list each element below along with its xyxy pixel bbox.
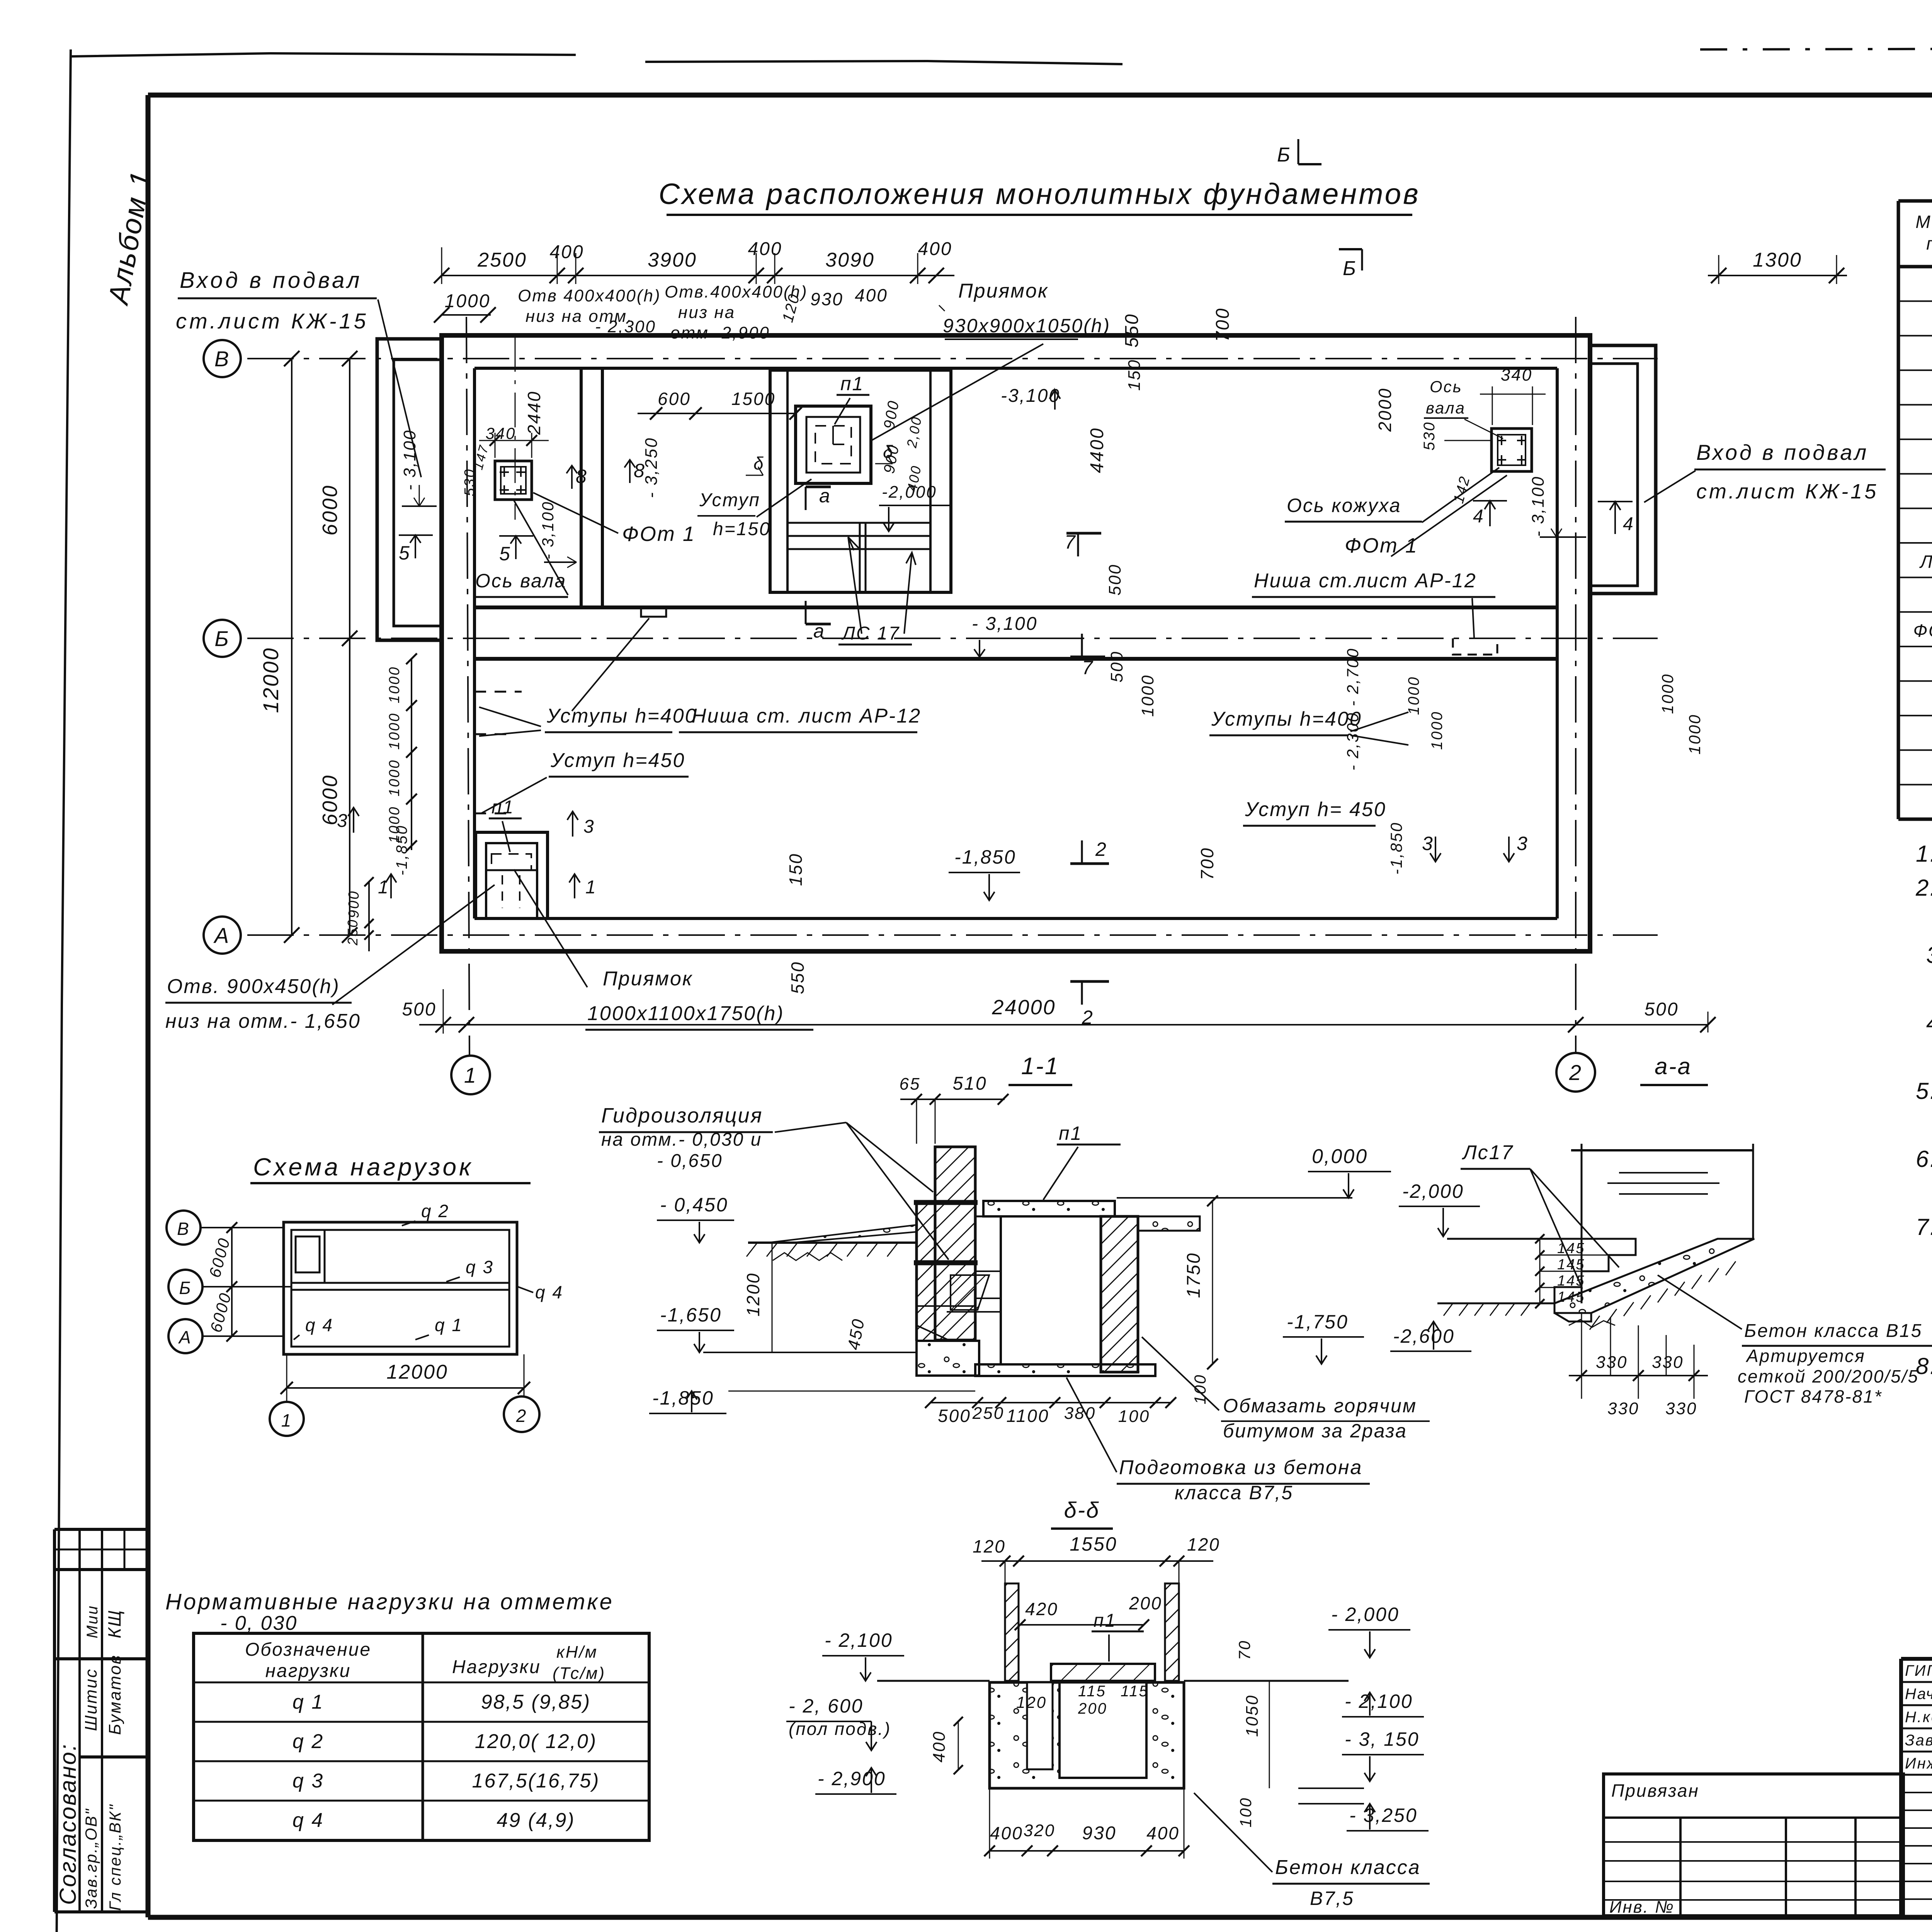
plan building outer walls	[442, 335, 1590, 951]
1-1 sloped apron	[768, 1225, 917, 1243]
svg-text:δ: δ	[753, 453, 765, 473]
svg-text:Н.контр.: Н.контр.	[1905, 1709, 1932, 1726]
axis line Б	[247, 638, 1658, 639]
svg-text:65: 65	[900, 1075, 921, 1094]
svg-text:340: 340	[1501, 366, 1532, 384]
svg-text:5: 5	[499, 543, 511, 565]
svg-text:4: 4	[1623, 514, 1634, 534]
svg-text:250: 250	[345, 918, 361, 946]
svg-text:- 2,300: - 2,300	[595, 317, 656, 336]
svg-text:1000: 1000	[386, 759, 403, 797]
sheet outer border top	[71, 53, 1122, 64]
svg-text:400: 400	[990, 1823, 1023, 1843]
section mark Б top	[1298, 139, 1299, 164]
svg-text:400: 400	[930, 1731, 949, 1762]
axis line 2	[1575, 317, 1577, 1053]
svg-text:В: В	[214, 347, 230, 371]
svg-text:70: 70	[1235, 1640, 1253, 1660]
svg-text:250: 250	[972, 1404, 1004, 1423]
b-b pit void	[1060, 1682, 1146, 1778]
svg-text:сеткой 200/200/5/5: сеткой 200/200/5/5	[1738, 1366, 1919, 1386]
svg-text:550: 550	[787, 961, 808, 994]
svg-text:550: 550	[1122, 313, 1142, 347]
svg-text:Уступ: Уступ	[699, 490, 760, 510]
svg-text:Зав.гр.„ОВ": Зав.гр.„ОВ"	[82, 1808, 100, 1909]
svg-text:Обозначение: Обозначение	[245, 1639, 371, 1660]
svg-text:Нагрузки: Нагрузки	[452, 1657, 541, 1677]
svg-text:2500: 2500	[477, 249, 527, 271]
left small dim chain 1000s	[411, 659, 412, 850]
1-1 bottom slab	[975, 1364, 1155, 1376]
svg-text:Гл спец.„ВК": Гл спец.„ВК"	[106, 1804, 124, 1911]
svg-text:400: 400	[1146, 1823, 1180, 1843]
svg-text:7: 7	[1082, 657, 1094, 679]
svg-text:п1: п1	[1094, 1611, 1116, 1631]
svg-text:(Тс/м): (Тс/м)	[553, 1664, 605, 1683]
b-b concrete pit	[990, 1682, 1184, 1788]
svg-text:115: 115	[1078, 1683, 1106, 1700]
svg-text:200: 200	[1129, 1593, 1162, 1613]
left vertical dimension line 6000/6000	[349, 359, 350, 935]
svg-text:- 2,900: - 2,900	[818, 1768, 886, 1789]
niche small bottom of upper half	[641, 607, 666, 617]
svg-text:100: 100	[1236, 1797, 1255, 1827]
svg-text:100: 100	[1118, 1407, 1150, 1426]
svg-text:Схема расположения монолитных: Схема расположения монолитных фундаменто…	[658, 178, 1420, 211]
svg-text:Нормативные нагрузки на отме: Нормативные нагрузки на отметке	[165, 1589, 614, 1614]
svg-text:1500: 1500	[731, 389, 776, 409]
svg-text:24000: 24000	[992, 996, 1056, 1019]
svg-text:а-а: а-а	[1655, 1053, 1692, 1079]
svg-text:поз.: поз.	[1926, 233, 1932, 253]
svg-text:- 3,100: - 3,100	[539, 501, 557, 560]
pit stairs	[787, 522, 930, 524]
svg-text:530: 530	[462, 468, 478, 496]
svg-text:п1: п1	[840, 373, 864, 395]
svg-text:нагрузки: нагрузки	[265, 1661, 351, 1681]
niche dashed right	[1453, 638, 1497, 655]
svg-text:150: 150	[786, 853, 806, 886]
plan building inner wall faces	[474, 367, 1557, 370]
load scheme 6000 dims	[231, 1228, 233, 1336]
svg-text:167,5(16,75): 167,5(16,75)	[472, 1770, 600, 1792]
svg-text:5.: 5.	[1916, 1078, 1932, 1104]
svg-text:q 1: q 1	[293, 1691, 324, 1713]
axis through FOt1 left	[515, 337, 516, 520]
svg-text:510: 510	[952, 1073, 987, 1094]
svg-text:ст.лист КЖ-15: ст.лист КЖ-15	[1696, 480, 1878, 503]
load scheme axis 1 circle	[270, 1402, 304, 1436]
svg-text:Вход в подвал: Вход в подвал	[180, 268, 362, 293]
svg-text:q 3: q 3	[293, 1770, 324, 1792]
svg-text:q 1: q 1	[435, 1315, 463, 1335]
svg-text:Приямок: Приямок	[603, 968, 693, 990]
svg-text:Б: Б	[214, 626, 230, 651]
svg-text:В7,5: В7,5	[1310, 1888, 1354, 1909]
svg-text:500: 500	[1644, 999, 1679, 1020]
left vertical dimension line 12000	[291, 359, 293, 935]
svg-text:Обмазать горячим: Обмазать горячим	[1223, 1395, 1417, 1417]
a-a 330 dims	[1581, 1313, 1582, 1399]
svg-text:q 2: q 2	[293, 1730, 324, 1753]
svg-text:3: 3	[337, 811, 349, 831]
svg-text:Ниша ст.лист АР-12: Ниша ст.лист АР-12	[1254, 570, 1477, 592]
sheet outer border left	[56, 49, 71, 1932]
plan left entrance porch	[377, 339, 442, 640]
top dimension chain	[442, 275, 954, 276]
pit p1 slab	[796, 406, 871, 483]
b-b walls hatched	[1005, 1583, 1019, 1681]
svg-text:- 2,300 - 2,700: - 2,300 - 2,700	[1344, 648, 1362, 770]
svg-text:500: 500	[1105, 564, 1124, 595]
1-1 pit walls	[1101, 1216, 1138, 1372]
svg-text:12000: 12000	[259, 647, 283, 713]
svg-text:1: 1	[281, 1410, 293, 1430]
svg-text:Уступы h=400: Уступы h=400	[1211, 708, 1362, 730]
svg-text:Подготовка из бетона: Подготовка из бетона	[1119, 1456, 1362, 1479]
svg-text:Зав гр.: Зав гр.	[1905, 1732, 1932, 1749]
svg-text:Ось вала: Ось вала	[475, 570, 566, 592]
svg-text:4400: 4400	[1087, 427, 1107, 473]
fundament FOt1 left	[495, 461, 532, 500]
svg-text:1000: 1000	[445, 291, 491, 311]
svg-text:8: 8	[576, 466, 588, 487]
axis circle А	[204, 917, 241, 954]
axis circle В	[204, 340, 241, 377]
svg-text:330: 330	[1652, 1353, 1684, 1372]
1-1 right ledge	[1138, 1216, 1200, 1231]
svg-text:930х900х1050(h): 930х900х1050(h)	[943, 315, 1111, 337]
svg-text:-2,000: -2,000	[882, 483, 937, 502]
svg-text:ФОт 1: ФОт 1	[622, 522, 696, 546]
svg-text:2440: 2440	[524, 391, 544, 435]
svg-text:400: 400	[918, 239, 952, 259]
svg-text:Мии: Мии	[84, 1605, 101, 1638]
svg-text:h=150: h=150	[713, 519, 771, 539]
svg-text:δ-δ: δ-δ	[1064, 1498, 1100, 1523]
svg-text:q 4: q 4	[293, 1809, 324, 1832]
svg-text:4.: 4.	[1926, 1010, 1932, 1036]
svg-text:Бетон класса В15: Бетон класса В15	[1744, 1321, 1922, 1341]
svg-text:320: 320	[1024, 1821, 1055, 1840]
svg-text:-1,650: -1,650	[660, 1304, 722, 1326]
svg-text:ГОСТ 8478-81*: ГОСТ 8478-81*	[1744, 1386, 1883, 1406]
svg-text:49 (4,9): 49 (4,9)	[497, 1809, 575, 1832]
svg-text:120: 120	[973, 1536, 1006, 1556]
svg-text:2.: 2.	[1915, 875, 1932, 901]
svg-text:3.: 3.	[1926, 942, 1932, 968]
axis circle Б	[204, 620, 241, 657]
svg-text:Уступ h= 450: Уступ h= 450	[1245, 798, 1386, 821]
svg-text:п1: п1	[1059, 1122, 1082, 1144]
svg-text:- 3,100: - 3,100	[1529, 476, 1548, 537]
svg-text:Вход в подвал: Вход в подвал	[1696, 440, 1869, 464]
a-a ground hatch	[1590, 1316, 1600, 1330]
svg-text:330: 330	[1665, 1399, 1697, 1418]
plan partition left room	[580, 368, 583, 607]
bottom dim 24000	[419, 1024, 1708, 1026]
svg-text:1550: 1550	[1070, 1533, 1117, 1555]
svg-text:Инж.: Инж.	[1905, 1755, 1932, 1772]
svg-text:низ на: низ на	[678, 303, 735, 322]
svg-text:- 2,100: - 2,100	[825, 1629, 893, 1651]
svg-text:- 0, 030: - 0, 030	[220, 1612, 298, 1634]
svg-text:Ниша ст. лист АР-12: Ниша ст. лист АР-12	[692, 705, 921, 727]
svg-text:1-1: 1-1	[1021, 1053, 1060, 1080]
svg-text:отм -2,900: отм -2,900	[670, 323, 770, 342]
svg-text:вала: вала	[1426, 399, 1466, 417]
svg-text:4: 4	[1473, 506, 1485, 527]
privyazan block	[1604, 1774, 1903, 1916]
axis circle 1	[451, 1056, 490, 1094]
axis line В	[247, 358, 1658, 359]
spec table grid	[1898, 201, 1932, 819]
svg-text:1000: 1000	[1405, 676, 1422, 715]
svg-text:-1,850: -1,850	[1387, 821, 1405, 874]
leader to priyatok	[871, 344, 1043, 440]
svg-text:А: А	[178, 1327, 192, 1347]
load scheme axes circles	[167, 1211, 201, 1245]
svg-text:150: 150	[1125, 359, 1144, 391]
svg-text:3: 3	[583, 816, 595, 837]
svg-text:145: 145	[1557, 1257, 1585, 1273]
axis circle 2	[1556, 1053, 1595, 1092]
svg-text:Бетон класса: Бетон класса	[1275, 1856, 1421, 1879]
svg-text:1000: 1000	[1685, 714, 1704, 754]
svg-text:420: 420	[1025, 1599, 1058, 1619]
svg-text:Схема нагрузок: Схема нагрузок	[253, 1153, 473, 1181]
svg-text:530: 530	[1421, 421, 1438, 451]
svg-text:q 3: q 3	[466, 1257, 494, 1277]
svg-text:- 3,100: - 3,100	[972, 614, 1037, 634]
svg-text:6.: 6.	[1916, 1146, 1932, 1172]
right 1300 dim	[1708, 275, 1847, 276]
a-a upper structure	[1581, 1144, 1583, 1303]
svg-text:Отв. 900х450(h): Отв. 900х450(h)	[167, 975, 340, 998]
svg-text:3900: 3900	[648, 249, 697, 271]
axis line А	[247, 934, 1658, 936]
left stamp table	[54, 1528, 148, 1531]
1-1 footing left	[917, 1341, 979, 1376]
1-1 bottom dims	[930, 1402, 1171, 1403]
b-b ground line	[877, 1680, 990, 1682]
svg-text:340: 340	[485, 424, 516, 442]
svg-text:1100: 1100	[1007, 1406, 1049, 1426]
svg-text:- 0,450: - 0,450	[660, 1194, 728, 1216]
svg-text:6000: 6000	[318, 485, 342, 536]
svg-text:120: 120	[1187, 1534, 1220, 1554]
svg-text:700: 700	[1197, 847, 1217, 880]
svg-text:500: 500	[938, 1406, 971, 1426]
svg-text:Буматов: Буматов	[105, 1654, 124, 1735]
svg-text:1000: 1000	[1658, 673, 1677, 714]
svg-text:п1: п1	[492, 797, 514, 818]
svg-text:1300: 1300	[1753, 249, 1802, 271]
svg-text:Лс17: Лс17	[1462, 1141, 1514, 1164]
svg-text:-1,750: -1,750	[1287, 1311, 1349, 1333]
svg-text:0,000: 0,000	[1312, 1145, 1368, 1168]
svg-text:1200: 1200	[743, 1272, 763, 1316]
svg-text:КЩ: КЩ	[104, 1609, 124, 1638]
svg-text:600: 600	[658, 389, 691, 409]
svg-text:Согласовано:: Согласовано:	[55, 1743, 81, 1905]
svg-text:5: 5	[399, 542, 411, 564]
svg-text:Инв. №: Инв. №	[1609, 1898, 1675, 1917]
svg-text:Уступы h=400: Уступы h=400	[546, 705, 697, 727]
pit dims 600 1500	[638, 413, 796, 414]
svg-text:на отм.- 0,030 и: на отм.- 0,030 и	[601, 1129, 762, 1150]
svg-text:Приямок: Приямок	[958, 280, 1048, 302]
svg-text:А: А	[213, 923, 230, 947]
svg-text:кН/м: кН/м	[556, 1643, 598, 1662]
priyatok bottom-left	[476, 832, 548, 918]
svg-text:- 2,000: - 2,000	[1331, 1604, 1400, 1625]
svg-text:930: 930	[810, 289, 844, 309]
svg-text:ЛС 17: ЛС 17	[841, 623, 900, 644]
svg-text:битумом за 2раза: битумом за 2раза	[1223, 1420, 1407, 1442]
svg-text:ФОт 1: ФОт 1	[1913, 621, 1932, 641]
svg-text:1000х1100х1750(h): 1000х1100х1750(h)	[587, 1002, 784, 1025]
svg-text:380: 380	[1064, 1404, 1096, 1423]
svg-text:3090: 3090	[825, 249, 875, 271]
1-1 waterproofing bars	[914, 1200, 978, 1205]
svg-text:1050: 1050	[1243, 1694, 1262, 1737]
svg-text:Б: Б	[179, 1278, 192, 1298]
svg-text:100: 100	[1191, 1374, 1209, 1404]
svg-text:900: 900	[346, 890, 362, 918]
svg-text:Ось: Ось	[1430, 378, 1463, 396]
svg-text:120,0( 12,0): 120,0( 12,0)	[475, 1730, 597, 1753]
fundament FOt1 right	[1492, 429, 1532, 471]
pit priyatok top-middle	[770, 370, 951, 592]
dashed ustup lines left	[474, 691, 522, 693]
svg-text:145: 145	[1557, 1240, 1585, 1257]
b-b channel	[1027, 1682, 1053, 1769]
svg-text:500: 500	[402, 999, 436, 1020]
plan middle wall at axis Б	[474, 605, 1557, 609]
load table	[194, 1633, 649, 1840]
svg-text:ЛС17: ЛС17	[1919, 551, 1932, 571]
svg-text:- 3,250: - 3,250	[1349, 1804, 1418, 1826]
svg-text:- 3,250: - 3,250	[642, 437, 661, 498]
svg-text:Привязан: Привязан	[1611, 1781, 1699, 1801]
svg-text:1: 1	[464, 1063, 477, 1087]
svg-text:3: 3	[1517, 833, 1529, 854]
svg-text:класса В7,5: класса В7,5	[1175, 1482, 1293, 1503]
svg-text:Б: Б	[1343, 257, 1357, 280]
svg-text:q 2: q 2	[421, 1201, 449, 1221]
svg-text:1000: 1000	[386, 713, 403, 750]
plan right entrance porch	[1590, 345, 1656, 594]
svg-text:-2,000: -2,000	[1402, 1180, 1464, 1202]
svg-text:400: 400	[748, 239, 782, 259]
axis line 1	[466, 317, 469, 1056]
svg-text:2000: 2000	[1375, 388, 1395, 432]
svg-text:1: 1	[585, 877, 597, 898]
a-a steps	[1554, 1239, 1636, 1303]
svg-text:Б: Б	[1277, 144, 1291, 166]
svg-text:Нач.отд: Нач.отд	[1905, 1685, 1932, 1702]
a-a slab band	[1554, 1239, 1754, 1313]
svg-text:Отв 400х400(h): Отв 400х400(h)	[518, 286, 661, 305]
svg-text:- 2, 600: - 2, 600	[789, 1695, 864, 1717]
main frame	[148, 93, 1932, 98]
a-a 145 dims	[1539, 1239, 1541, 1303]
svg-text:145: 145	[1557, 1273, 1585, 1289]
svg-text:В: В	[177, 1219, 190, 1239]
svg-text:-2,600: -2,600	[1393, 1325, 1455, 1347]
svg-text:2: 2	[1569, 1060, 1582, 1085]
1-1 ground line	[748, 1242, 917, 1244]
svg-text:2: 2	[1095, 838, 1107, 860]
svg-text:98,5 (9,85): 98,5 (9,85)	[481, 1691, 591, 1713]
svg-text:500: 500	[1107, 651, 1126, 682]
svg-text:Артируется: Артируется	[1745, 1346, 1866, 1366]
svg-text:Уступ h=450: Уступ h=450	[550, 749, 685, 772]
svg-text:400: 400	[855, 285, 888, 305]
svg-text:Ось кожуха: Ось кожуха	[1287, 495, 1401, 516]
svg-text:-1,850: -1,850	[393, 825, 410, 875]
svg-text:- 2,100: - 2,100	[1345, 1690, 1413, 1712]
svg-text:ст.лист КЖ-15: ст.лист КЖ-15	[176, 309, 369, 333]
svg-text:3: 3	[1422, 833, 1434, 854]
svg-text:Марка: Марка	[1915, 212, 1932, 232]
svg-text:q 4: q 4	[305, 1315, 333, 1335]
svg-text:2: 2	[516, 1406, 527, 1426]
svg-text:115: 115	[1121, 1683, 1149, 1700]
svg-text:Шитис: Шитис	[82, 1668, 100, 1731]
svg-text:700: 700	[1213, 307, 1233, 342]
svg-text:930: 930	[1082, 1823, 1116, 1844]
svg-text:-1,850: -1,850	[652, 1387, 714, 1409]
b-b p1 slab	[1051, 1664, 1155, 1681]
svg-text:ГИП: ГИП	[1905, 1662, 1932, 1679]
svg-text:Гидроизоляция: Гидроизоляция	[601, 1104, 763, 1127]
svg-text:200: 200	[1078, 1700, 1107, 1717]
title block signature table	[1901, 1657, 1932, 1661]
svg-text:120: 120	[1016, 1693, 1047, 1711]
svg-text:330: 330	[1607, 1399, 1639, 1418]
svg-text:400: 400	[549, 242, 584, 262]
1-1 inner steps	[947, 1271, 1001, 1312]
load scheme plan	[284, 1222, 517, 1354]
svg-text:- 0,650: - 0,650	[657, 1151, 723, 1171]
svg-text:- 3,100: - 3,100	[400, 429, 419, 490]
second dim row	[442, 314, 491, 316]
1-1 p1 slab	[983, 1201, 1115, 1216]
svg-text:q 4: q 4	[535, 1282, 563, 1302]
svg-text:7.: 7.	[1916, 1214, 1932, 1240]
svg-text:1000: 1000	[1138, 674, 1157, 717]
svg-text:- 3, 150: - 3, 150	[1345, 1728, 1420, 1750]
svg-text:1.: 1.	[1916, 841, 1932, 867]
load scheme small room	[296, 1236, 320, 1272]
svg-text:1000: 1000	[1429, 711, 1446, 750]
1-1 brick wall hatched	[935, 1147, 975, 1340]
svg-text:1000: 1000	[386, 666, 403, 704]
svg-text:12000: 12000	[386, 1361, 448, 1383]
load scheme 12000 dim	[287, 1387, 524, 1389]
svg-text:-1,850: -1,850	[954, 846, 1016, 868]
load scheme axis 2 circle	[504, 1396, 539, 1432]
svg-text:330: 330	[1596, 1353, 1628, 1372]
svg-text:низ на отм.- 1,650: низ на отм.- 1,650	[165, 1010, 361, 1032]
svg-text:1750: 1750	[1184, 1252, 1204, 1298]
b-b bottom dims	[990, 1850, 1184, 1852]
